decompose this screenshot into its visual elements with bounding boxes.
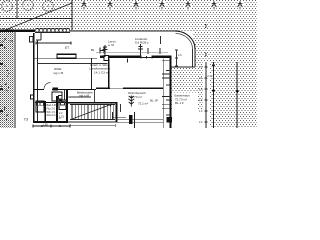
stipple ground: right field	[193, 0, 257, 128]
left dense stipple strip	[0, 28, 14, 128]
svg-text:BL 1 F: BL 1 F	[175, 101, 184, 105]
label 1. Wohnung	[90, 63, 111, 75]
right wall outer thick	[170, 55, 172, 128]
svg-text:73: 73	[24, 117, 29, 122]
interior wall vertical x=91.5	[91, 59, 92, 90]
closet marks left column	[59, 96, 63, 100]
boundary line B with diamond	[236, 62, 239, 128]
svg-text:Abst 2.1: Abst 2.1	[47, 114, 57, 117]
hall wall horizontal	[35, 102, 68, 103]
building interior white	[33, 33, 171, 128]
stipple ground: top band	[0, 0, 257, 31]
left room bottom wall	[34, 89, 44, 90]
dimension ticks above wall	[36, 42, 160, 55]
boundary line horizontal upper-left	[0, 18, 72, 19]
dimension line above main wall	[96, 52, 168, 55]
stair right wall	[116, 102, 118, 122]
pergola band with circles	[35, 28, 70, 33]
mid room bottom wall	[96, 87, 110, 89]
gas line stub	[159, 36, 162, 44]
white footpath left	[16, 32, 34, 129]
svg-text:5.6 RCB y: 5.6 RCB y	[135, 40, 149, 44]
door arc left room	[44, 83, 51, 90]
terrace dimension line	[175, 50, 178, 66]
terrace bottom edge	[171, 66, 195, 69]
fixture boxes bottom-left	[36, 101, 44, 112]
label above wall 2	[135, 37, 149, 44]
interior wall vertical x=67	[66, 90, 68, 122]
top wall thick segment B	[152, 56, 172, 59]
survey marker 2	[138, 44, 143, 58]
marker square right wall bottom	[167, 117, 173, 123]
svg-text:1.85: 1.85	[43, 124, 48, 127]
bottom wall left wing	[33, 121, 68, 123]
lower room bottom double line	[117, 118, 163, 121]
boundary line vertical x=72	[72, 0, 73, 30]
svg-text:ET: ET	[65, 46, 69, 50]
boundary line vertical x=17	[17, 0, 18, 19]
window bar left wing	[57, 54, 76, 58]
svg-text:BL 1P: BL 1P	[150, 99, 158, 103]
white margin strip along dimension chain	[203, 62, 210, 128]
shrub row along top	[80, 1, 88, 9]
svg-text:72.73 m²: 72.73 m²	[130, 95, 142, 99]
fixture box right column	[59, 100, 66, 110]
dimension chain vertical	[205, 62, 208, 128]
interior wall x=57	[56, 96, 58, 122]
svg-text:72.1 m²: 72.1 m²	[138, 102, 148, 106]
retaining wall thick top-left	[0, 30, 35, 32]
tree T2	[23, 0, 34, 10]
svg-text:14.1 C3 m: 14.1 C3 m	[94, 70, 109, 74]
boundary line A with diamond	[212, 62, 215, 128]
entry door step	[30, 37, 34, 43]
staircase treads	[68, 105, 117, 127]
label above wall 1	[108, 40, 116, 47]
vertical line x=134.5	[133, 112, 136, 128]
window ticks right wall	[162, 61, 172, 109]
building left wall outer	[33, 33, 35, 123]
white area below garden block	[171, 110, 203, 128]
svg-text:1.0: 1.0	[178, 53, 182, 57]
pavement edge vertical double	[191, 49, 194, 67]
small text row bottom-left	[47, 104, 65, 118]
door stub x=127	[126, 59, 129, 63]
stair break diagonal	[72, 104, 112, 119]
label left room	[53, 67, 64, 75]
survey marker 1	[103, 45, 108, 57]
wall dimension dashes	[166, 71, 170, 116]
interior wall vertical x=108	[108, 59, 109, 89]
wc room box	[52, 92, 62, 101]
label Bedienstete	[77, 91, 93, 98]
site edge line to arc	[70, 30, 178, 33]
wall stub x=45	[45, 101, 47, 121]
path right edge line	[14, 30, 17, 128]
label Gartenhaus box	[173, 93, 198, 110]
side door mark	[31, 95, 34, 99]
stair top wall	[68, 102, 117, 104]
top wall thick segment A	[100, 56, 141, 59]
left strip mottling	[1, 38, 13, 120]
stipple garden block right of building	[171, 67, 204, 110]
corridor line	[69, 96, 92, 99]
door post square	[104, 56, 109, 61]
curved pavement corner outer	[175, 31, 195, 49]
left wing inner wall line	[38, 62, 108, 65]
diagonal path edge	[4, 3, 72, 31]
tree T1	[2, 1, 13, 12]
white terrace inside curved corner	[171, 31, 195, 67]
svg-text:a. M: a. M	[108, 43, 114, 47]
entry step lines	[36, 33, 41, 40]
conifer tree in plan	[128, 96, 134, 107]
window opening in top wall	[141, 56, 152, 59]
label Wohnbereich	[128, 91, 158, 106]
survey bracket marks	[205, 25, 206, 57]
curved pavement corner inner	[176, 34, 193, 50]
tree T3	[43, 1, 54, 12]
closet line	[119, 104, 122, 112]
svg-text:2.40: 2.40	[207, 74, 213, 78]
pier black	[129, 115, 132, 124]
svg-text:1.15: 1.15	[59, 115, 64, 118]
right wall inner line	[162, 59, 165, 129]
left strip dark dashes	[0, 44, 3, 112]
dimension line bottom	[33, 125, 70, 128]
svg-text:mg x M: mg x M	[79, 94, 89, 98]
left wing top wall line	[34, 57, 97, 60]
svg-text:BL: BL	[91, 48, 95, 52]
building left wall inner	[36, 40, 39, 122]
svg-text:mg x M: mg x M	[53, 71, 64, 75]
lobby wall stub	[111, 112, 114, 120]
